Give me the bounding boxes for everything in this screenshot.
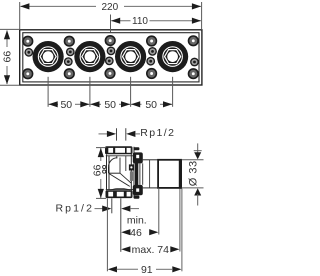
grommet left top (22, 36, 33, 47)
svg-text:46: 46 (130, 227, 142, 239)
grommet right top (188, 35, 199, 46)
arrowhead 220 right (192, 3, 201, 9)
plate outer rectangle (20, 30, 202, 85)
dimension line 66 vertical (6, 31, 8, 48)
union port 1 (black disc with hex nut) (33, 41, 64, 72)
dimension max. 74: line + arrows (121, 246, 130, 252)
svg-text:max. 74: max. 74 (132, 244, 170, 256)
svg-text:Rp1/2: Rp1/2 (56, 203, 95, 215)
dimension 66 (front view) extension line bottom (0, 84, 20, 86)
svg-text:110: 110 (132, 16, 148, 27)
dimension line 220 (21, 5, 97, 7)
dimension min46: extension right (158, 188, 160, 235)
dimension Ø33: extension bottom (182, 187, 204, 189)
throat arch above bottom rail (111, 188, 131, 190)
snap clip bottom (133, 185, 143, 199)
50-spacing extension line port2 (89, 77, 91, 107)
dimension 66 (front view) extension line top (0, 28, 20, 30)
arrowhead 50-3 left (131, 101, 140, 107)
ring-dot right edge (190, 58, 199, 67)
svg-text:220: 220 (101, 2, 118, 13)
arrowhead 110 right (192, 18, 201, 24)
50-spacing extension line port3 (130, 77, 132, 107)
body top face line (106, 155, 134, 157)
centre pillar between clips (135, 163, 138, 187)
top thread bore lines (116, 156, 118, 159)
arrowhead 66 bottom (4, 75, 10, 84)
snap clip top (133, 147, 143, 163)
dimension 66 side: extension bottom (96, 197, 106, 199)
screws on left wall (103, 165, 106, 168)
plate inner rectangle (23, 33, 199, 82)
dimension 110 extension line (plate centre) (110, 15, 112, 33)
svg-text:50: 50 (104, 99, 116, 111)
body right face columns (130, 147, 132, 198)
dimension line 50 segment 1 (48, 103, 58, 105)
dimension 91: line + arrows (108, 266, 117, 272)
svg-text:Ø 33: Ø 33 (188, 160, 200, 186)
channel diagonal 1 (109, 173, 130, 186)
arrowhead 50-3 right (163, 101, 172, 107)
body bottom face line (106, 189, 134, 191)
dimension line 50 segment 3 (131, 103, 142, 105)
svg-text:66: 66 (1, 51, 13, 63)
arrowhead 50-2 right (121, 101, 130, 107)
grommet left bottom (22, 68, 33, 79)
fastener chain 1 (between ports 1-2) (64, 36, 75, 80)
dimension 220 extension line right (201, 2, 203, 30)
fastener chain 3 (between ports 3-4) (146, 35, 157, 79)
fastener chain 2 (between ports 2-3) (104, 35, 115, 79)
union port 3 (115, 41, 146, 72)
arrowhead 50-1 right (80, 101, 89, 107)
top mounting rail (105, 146, 133, 154)
centre fixing screw (129, 164, 134, 181)
dimension 66 side: extension top (96, 147, 106, 149)
channel diagonal 2 (120, 173, 131, 183)
dimension line 50 segment 2 (90, 103, 101, 105)
50-spacing extension line port1 (47, 77, 49, 107)
grommet right bottom (188, 68, 199, 79)
50-spacing extension line port4 (172, 77, 174, 107)
svg-text:91: 91 (141, 264, 153, 276)
arrowhead 110 left (111, 18, 120, 24)
dimension 66 side: line (100, 148, 102, 161)
channel inner vertical (119, 158, 121, 174)
ring-dot left edge (24, 48, 33, 57)
body left wall (106, 155, 108, 191)
dimension Ø33: extension top (182, 159, 204, 161)
union port 4 (157, 41, 188, 72)
arrowhead 220 left (20, 3, 29, 9)
elbow channel vertical (108, 167, 110, 173)
arrowhead 66 top (4, 30, 10, 39)
dimension line 110 (111, 20, 130, 22)
elbow channel arc (108, 158, 117, 167)
arrowhead 50-1 left (49, 101, 58, 107)
dimension Rp 1/2 top: line + arrows (99, 133, 108, 135)
union port 2 (74, 41, 105, 72)
elbow shoulder (109, 172, 121, 174)
dimension Rp 1/2 top: tick right (125, 128, 127, 140)
svg-text:66: 66 (91, 164, 103, 176)
dimension min 46: line + arrows (121, 229, 130, 235)
svg-text:50: 50 (145, 99, 157, 111)
dimension Rp 1/2 top: tick left (116, 128, 118, 140)
dimension Ø33: arrows (197, 143, 199, 154)
dimension 91: extension left (body edge) (106, 198, 108, 271)
bottom mounting rail (106, 190, 133, 198)
protective sleeve box (143, 159, 181, 189)
dimension max74: extension right (sleeve edge, double line) (179, 189, 181, 252)
arrowhead 50-2 left (90, 101, 99, 107)
svg-text:Rp1/2: Rp1/2 (140, 127, 175, 139)
bottom thread bore lines (111, 198, 113, 213)
dimension 220 extension line left (19, 2, 21, 30)
dimension Rp 1/2 bottom: line + arrows (95, 208, 103, 210)
svg-text:50: 50 (60, 99, 72, 111)
svg-text:min.: min. (127, 215, 147, 227)
